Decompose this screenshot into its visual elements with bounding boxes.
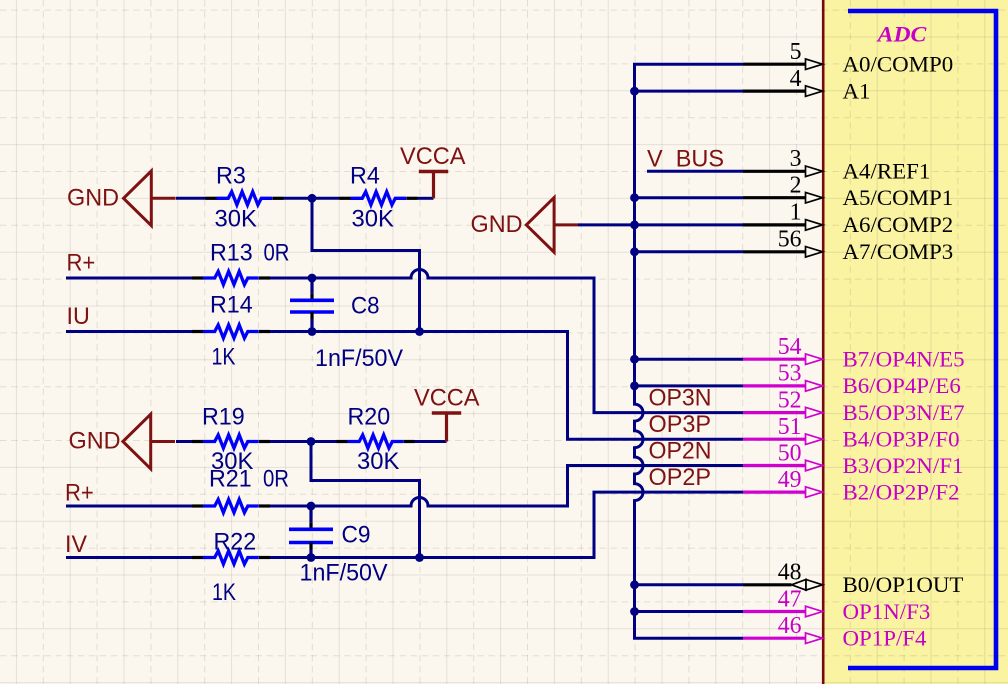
wire bus to pin 53 (635, 384, 744, 387)
svg-text:50: 50 (778, 440, 802, 466)
wire net IV left (66, 556, 192, 559)
svg-text:GND: GND (69, 428, 121, 455)
svg-text:30K: 30K (215, 206, 258, 233)
junction bus/pin 56 (630, 247, 639, 256)
svg-text:R4: R4 (350, 163, 380, 190)
wire bus to pin 47 (635, 610, 744, 613)
svg-text:53: 53 (778, 361, 802, 387)
svg-text:A6/COMP2: A6/COMP2 (843, 212, 954, 237)
junction bus/pin 54 (630, 355, 639, 364)
junction bus/pin 1 (630, 221, 639, 230)
resistor R20 (337, 435, 415, 448)
pin 54 (B7/OP4N/E5) (743, 354, 823, 365)
junction bus/pin 53 (630, 382, 639, 391)
wire bus to pin 48 (635, 583, 744, 586)
wire GND1 to R3 (176, 197, 206, 200)
svg-text:1: 1 (790, 200, 802, 226)
wire node A down-jog to IU net (312, 198, 420, 331)
svg-text:C9: C9 (342, 522, 371, 549)
svg-text:B0/OP1OUT: B0/OP1OUT (843, 572, 964, 597)
pin 53 (B6/OP4P/E6) (743, 381, 823, 392)
wire R20 to VCCA (415, 440, 447, 443)
svg-text:R20: R20 (348, 404, 391, 431)
svg-text:56: 56 (778, 227, 802, 253)
svg-text:47: 47 (778, 586, 802, 612)
pin 46 (OP1P/F4) (743, 633, 823, 644)
svg-text:2: 2 (790, 173, 802, 199)
wire bus to pin 54 (635, 358, 744, 361)
ground symbol GND2 (bottom divider) (69, 414, 176, 469)
svg-text:52: 52 (778, 387, 802, 413)
junction node B (R19/R20) (307, 437, 316, 446)
resistor R13 (192, 271, 270, 284)
svg-text:B2/OP2P/F2: B2/OP2P/F2 (843, 479, 960, 504)
svg-text:A4/REF1: A4/REF1 (843, 159, 931, 184)
svg-text:0R: 0R (264, 240, 290, 267)
svg-text:IV: IV (65, 531, 88, 558)
wire net IV to pin 49 with hop (270, 492, 743, 557)
resistor R21 (192, 499, 270, 512)
power symbol VCCA (top) (400, 143, 466, 198)
svg-text:B7/OP4N/E5: B7/OP4N/E5 (843, 347, 965, 372)
ADC body left border (822, 0, 825, 684)
svg-text:R22: R22 (214, 529, 257, 556)
wire bus to pin 56 (635, 250, 744, 253)
junction divider/IU node (415, 327, 424, 336)
pin 49 (B2/OP2P/F2) (743, 487, 823, 498)
svg-text:A7/COMP3: A7/COMP3 (843, 239, 954, 264)
svg-text:VCCA: VCCA (400, 143, 466, 170)
ground symbol GND3 (ADC side) (471, 198, 579, 253)
wire net R+ top to pin 52 with hops (270, 270, 743, 413)
wire R19 to R20 (node B) (270, 440, 337, 443)
wire net V_BUS to pin 3 (647, 170, 743, 173)
svg-text:GND: GND (67, 185, 119, 212)
svg-text:48: 48 (778, 560, 802, 586)
svg-text:A0/COMP0: A0/COMP0 (843, 52, 954, 77)
junction R13/C8 node (308, 274, 317, 283)
svg-text:1nF/50V: 1nF/50V (300, 560, 389, 587)
pin 50 (B3/OP2N/F1) (743, 460, 823, 471)
svg-text:OP1N/F3: OP1N/F3 (843, 599, 931, 624)
svg-text:A1: A1 (843, 78, 871, 103)
capacitor C8 (290, 278, 334, 332)
wire net IU to pin 51 with hop (270, 332, 743, 440)
wire net R+ top left (66, 277, 192, 280)
svg-text:1K: 1K (212, 579, 237, 606)
svg-text:OP3N: OP3N (649, 385, 712, 412)
svg-text:0R: 0R (263, 466, 289, 493)
svg-text:54: 54 (778, 334, 802, 360)
svg-text:A5/COMP1: A5/COMP1 (843, 185, 954, 210)
pin 4 (A1) (743, 86, 823, 97)
svg-text:3: 3 (790, 146, 802, 172)
wire net R+ bottom to pin 50 with hops (270, 466, 743, 507)
component U? ADC body fill region (824, 0, 1008, 684)
wire R4 to VCCA (418, 197, 434, 200)
wire net IU left (66, 330, 192, 333)
svg-text:51: 51 (778, 414, 802, 440)
ADC symbol outline (848, 11, 996, 668)
svg-text:V_BUS: V_BUS (647, 145, 724, 172)
svg-text:R14: R14 (210, 292, 253, 319)
svg-text:R21: R21 (209, 466, 252, 493)
svg-text:30K: 30K (352, 206, 395, 233)
wire node B down-jog to IV net (311, 442, 420, 558)
svg-text:46: 46 (778, 613, 802, 639)
junction bus/pin 48 (630, 580, 639, 589)
svg-text:B4/OP3P/F0: B4/OP3P/F0 (843, 427, 960, 452)
junction C8/IU node (308, 327, 317, 336)
wire R3 to R4 (node A) (284, 197, 340, 200)
pin 48 (B0/OP1OUT) (743, 580, 823, 591)
pin 3 (A4/REF1) (743, 166, 823, 177)
svg-text:1nF/50V: 1nF/50V (315, 345, 404, 372)
svg-text:1K: 1K (212, 344, 237, 371)
junction R21/C9 node (307, 502, 316, 511)
svg-text:R3: R3 (216, 163, 246, 190)
svg-text:IU: IU (67, 303, 90, 330)
power symbol VCCA (bottom) (414, 385, 480, 442)
svg-text:B6/OP4P/E6: B6/OP4P/E6 (843, 373, 961, 398)
wire net R+ bottom left (66, 505, 192, 508)
pin 5 (A0/COMP0) (743, 59, 823, 70)
junction C9/IV node (307, 553, 316, 562)
wire bus to pin 2 (635, 196, 744, 199)
resistor R22 (192, 551, 270, 564)
svg-text:30K: 30K (357, 448, 400, 475)
svg-text:4: 4 (790, 66, 802, 92)
svg-text:R+: R+ (65, 479, 94, 506)
resistor R3 (206, 192, 284, 205)
pin 1 (A6/COMP2) (743, 220, 823, 231)
svg-text:R+: R+ (67, 250, 96, 277)
svg-text:R19: R19 (202, 404, 245, 431)
resistor R4 (340, 192, 418, 205)
wire bus to pin 1 (635, 223, 744, 226)
junction bus/pin 47 (630, 607, 639, 616)
vertical bus wire (635, 64, 744, 638)
resistor R19 (192, 435, 270, 448)
capacitor C9 (289, 506, 333, 558)
svg-text:GND: GND (471, 211, 523, 238)
svg-text:49: 49 (778, 467, 802, 493)
svg-text:C8: C8 (351, 293, 380, 320)
pin 56 (A7/COMP3) (743, 247, 823, 258)
junction bus/pin 2 (630, 193, 639, 202)
pin 52 (B5/OP3N/E7) (743, 407, 823, 418)
svg-text:R13: R13 (210, 240, 253, 267)
ground symbol GND1 (top divider) (67, 171, 176, 226)
junction bus/pin 4 (630, 87, 639, 96)
svg-text:OP2P: OP2P (649, 464, 712, 491)
svg-text:5: 5 (790, 39, 802, 65)
pin 47 (OP1N/F3) (743, 606, 823, 617)
junction node A (R3/R4) (308, 194, 317, 203)
junction divider/IV node (415, 553, 424, 562)
svg-text:OP2N: OP2N (649, 438, 712, 465)
svg-text:B3/OP2N/F1: B3/OP2N/F1 (843, 453, 964, 478)
svg-text:OP1P/F4: OP1P/F4 (843, 626, 927, 651)
wire bus to pin 4 (635, 90, 744, 93)
svg-text:B5/OP3N/E7: B5/OP3N/E7 (843, 400, 965, 425)
pin 2 (A5/COMP1) (743, 192, 823, 203)
pin 51 (B4/OP3P/F0) (743, 434, 823, 445)
svg-text:VCCA: VCCA (414, 385, 480, 412)
wire GND3 to bus (578, 223, 635, 226)
wire GND2 to R19 (176, 440, 192, 443)
resistor R14 (192, 325, 270, 338)
svg-text:ADC: ADC (876, 22, 928, 47)
svg-text:OP3P: OP3P (649, 411, 712, 438)
